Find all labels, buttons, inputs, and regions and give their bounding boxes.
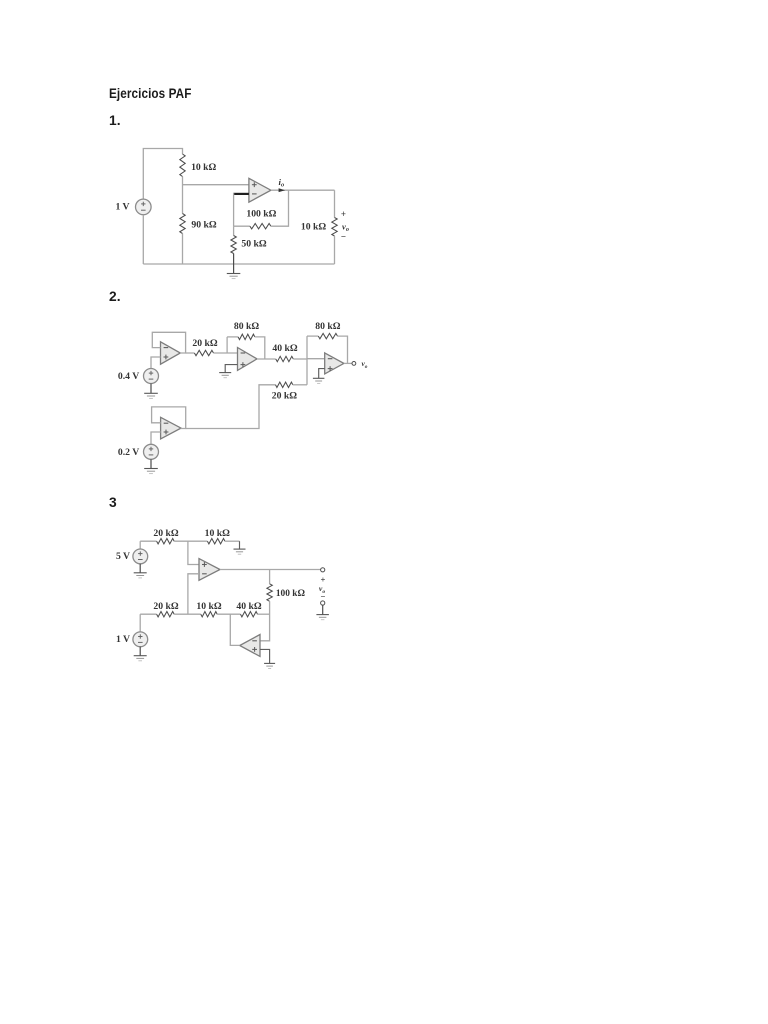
resistor 100 kOhm (feedback) xyxy=(250,224,271,229)
op-amp D (0.2V follower) xyxy=(161,417,181,439)
svg-text:io: io xyxy=(278,177,284,189)
wire: row1 node xyxy=(174,540,207,542)
svg-text:80 kΩ: 80 kΩ xyxy=(315,321,340,332)
wire: 40k to 100k node xyxy=(258,613,270,615)
wire: 1V to ground xyxy=(139,647,141,656)
wire: B output xyxy=(257,358,276,360)
ground (0.4 V source) xyxy=(144,392,158,394)
arrowhead current io xyxy=(279,188,286,192)
wire: 10k to ground drop xyxy=(225,540,240,542)
wire: 20k to op-amp B inverting input xyxy=(214,352,238,354)
wire: 0.2V source to ground xyxy=(150,459,152,468)
wire: summing node to op-amp C xyxy=(307,358,325,360)
wire: 50k to ground xyxy=(233,254,235,274)
wire: B inverting node riser xyxy=(226,337,228,353)
wire: load bottom xyxy=(334,236,336,264)
wire: 100k riser from output xyxy=(269,570,271,584)
svg-text:10 kΩ: 10 kΩ xyxy=(191,162,216,173)
heading: exercise 2 xyxy=(109,289,121,304)
ground (row1 right) xyxy=(234,548,246,550)
svg-text:50 kΩ: 50 kΩ xyxy=(241,239,266,250)
svg-text:90 kΩ: 90 kΩ xyxy=(191,219,216,230)
wire: inverting node vertical xyxy=(233,193,235,226)
ground (5 V source) xyxy=(134,572,147,574)
wire: A output lead xyxy=(186,352,195,354)
wire: 20k to summing node xyxy=(293,384,307,386)
resistor 40 kOhm (row2) xyxy=(241,612,258,617)
svg-text:20 kΩ: 20 kΩ xyxy=(153,601,178,612)
resistor 10 kOhm (row2) xyxy=(201,612,217,617)
voltage source 0.2 V xyxy=(144,444,159,459)
voltage source 0.4 V xyxy=(144,369,159,384)
terminal vo top (open circle) xyxy=(321,568,325,572)
op-amp U1 xyxy=(249,178,271,202)
svg-text:100 kΩ: 100 kΩ xyxy=(246,209,276,220)
svg-text:0.2 V: 0.2 V xyxy=(118,447,139,458)
ground (op-amp F) xyxy=(264,662,275,664)
wire: C feedback left lead xyxy=(307,335,318,337)
wire: C output lead xyxy=(344,362,352,364)
wire: follower A + input xyxy=(151,357,161,369)
resistor 10 kOhm (row1 to ground) xyxy=(207,539,225,544)
wire: 5V row start xyxy=(140,540,156,542)
svg-text:40 kΩ: 40 kΩ xyxy=(236,601,261,612)
op-amp B (inverting) xyxy=(238,348,258,371)
wire: 40k to summing node xyxy=(293,358,307,360)
ground (op-amp B) xyxy=(219,372,231,374)
wire: ground rail xyxy=(143,263,334,265)
resistor 10 kOhm (load) xyxy=(332,218,337,237)
wire: follower D feedback loop xyxy=(152,407,186,429)
ground (1 V source) xyxy=(134,655,147,657)
wire: divider middle node xyxy=(182,177,184,214)
resistor 20 kOhm (D to summing) xyxy=(276,382,293,387)
wire: feedback left lead xyxy=(234,225,250,227)
wire: feedback right lead and riser to output xyxy=(271,190,289,226)
wire: B + input to ground xyxy=(225,365,237,373)
wire: follower D + input xyxy=(151,432,161,444)
svg-text:20 kΩ: 20 kΩ xyxy=(153,528,178,539)
wire: F + input to ground xyxy=(260,649,270,663)
wire: bold inverting input lead xyxy=(234,193,249,195)
wire: row2 segment 2 xyxy=(217,613,240,615)
wire: terminal to ground xyxy=(322,605,324,615)
wire: source bottom to ground rail xyxy=(142,215,144,264)
wire: follower A feedback loop xyxy=(152,332,185,353)
heading: Ejercicios PAF xyxy=(109,86,191,101)
ground (0.2 V source) xyxy=(144,468,158,470)
wire: row1 node down to op-amp E + input xyxy=(188,541,199,564)
resistor 50 kOhm xyxy=(231,236,236,254)
wire: row2 xyxy=(140,613,156,615)
wire: 1V source riser xyxy=(139,614,141,632)
svg-text:10 kΩ: 10 kΩ xyxy=(301,221,326,232)
svg-text:1 V: 1 V xyxy=(115,202,129,213)
wire: E inverting input from row2 xyxy=(188,574,199,614)
svg-text:1 V: 1 V xyxy=(116,634,130,645)
svg-text:−: − xyxy=(320,592,325,602)
wire: B feedback left lead xyxy=(227,336,238,338)
wire: summing node vertical xyxy=(306,336,308,385)
resistor 100 kOhm (feedback) circuit3 xyxy=(267,584,272,602)
wire: E output run xyxy=(220,569,321,571)
voltage source 5 V xyxy=(133,549,148,564)
wire: right branch down to 10k load xyxy=(334,190,336,217)
wire: 0.4V source to ground xyxy=(150,384,152,394)
terminal vo bottom (open circle) xyxy=(321,601,325,605)
wire: row2 segment xyxy=(174,613,201,615)
heading: exercise 3 xyxy=(109,495,117,510)
wire: D output run xyxy=(186,385,276,429)
wire: 50k top lead xyxy=(233,226,235,235)
voltage source 1 V xyxy=(136,199,152,215)
wire: node to op-amp + input xyxy=(183,184,249,186)
wire: C + input to ground xyxy=(319,369,325,379)
svg-text:20 kΩ: 20 kΩ xyxy=(192,338,217,349)
wire: ground drop row1 xyxy=(239,541,241,549)
svg-text:100 kΩ: 100 kΩ xyxy=(276,589,306,599)
svg-text:10 kΩ: 10 kΩ xyxy=(205,528,230,539)
resistor 40 kOhm xyxy=(276,356,294,361)
svg-text:80 kΩ: 80 kΩ xyxy=(234,321,259,332)
resistor 90 kOhm (divider bottom) xyxy=(180,214,185,234)
ground (op-amp C) xyxy=(313,377,325,379)
resistor 20 kOhm (1V input) xyxy=(157,612,175,617)
wire: 100k bottom to row2 and to op-amp F inverting xyxy=(260,601,270,641)
svg-text:+: + xyxy=(341,209,346,219)
heading: exercise 1 xyxy=(109,113,121,128)
ground (vo terminal) xyxy=(316,614,329,616)
svg-text:0.4 V: 0.4 V xyxy=(118,371,139,382)
op-amp A (0.4V follower) xyxy=(161,342,181,364)
svg-text:5 V: 5 V xyxy=(116,551,130,562)
wire: 5V to ground xyxy=(139,564,141,573)
op-amp E (difference) xyxy=(199,559,220,581)
voltage source 1 V (circuit 3) xyxy=(133,632,148,647)
wire: circuit1 top-left loop xyxy=(143,149,182,200)
wire: 5V source riser xyxy=(139,541,141,549)
wire: B feedback right lead xyxy=(255,337,265,359)
svg-text:vo: vo xyxy=(362,359,368,370)
wire: C feedback right lead xyxy=(338,336,348,363)
wire: 90k bottom to ground rail xyxy=(182,234,184,265)
op-amp F (inverting, points left) xyxy=(240,635,260,657)
svg-text:20 kΩ: 20 kΩ xyxy=(272,390,297,401)
resistor 80 kOhm (C feedback) xyxy=(318,333,337,338)
terminal vo (open circle) xyxy=(352,362,356,366)
wire: op-amp output xyxy=(271,189,335,191)
wire: F output up to row2 xyxy=(230,614,239,645)
svg-text:+: + xyxy=(320,575,325,585)
svg-text:40 kΩ: 40 kΩ xyxy=(272,343,297,354)
resistor 20 kOhm (5V input) xyxy=(157,539,175,544)
resistor 20 kOhm (A to B) xyxy=(194,350,213,355)
ground (circuit 1) xyxy=(227,273,241,275)
op-amp C (output stage) xyxy=(325,353,344,374)
resistor 10 kOhm (divider top) xyxy=(180,154,185,177)
svg-text:10 kΩ: 10 kΩ xyxy=(196,601,221,612)
resistor 80 kOhm (B feedback) xyxy=(238,334,255,339)
svg-text:−: − xyxy=(341,232,346,242)
